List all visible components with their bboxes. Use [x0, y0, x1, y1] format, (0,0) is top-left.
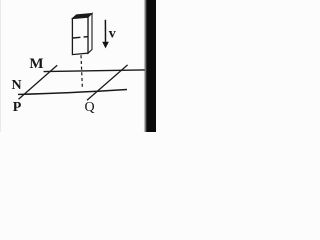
bar magnet pole divider (dashed) — [73, 36, 80, 39]
svg-text:N: N — [11, 78, 21, 93]
bar magnet front face — [72, 17, 88, 55]
dashed fall axis line — [81, 55, 82, 88]
svg-text:M: M — [29, 56, 43, 72]
loop plane left slant edge (M-P) — [19, 65, 58, 99]
bar magnet top face — [72, 13, 92, 18]
svg-text:Q: Q — [84, 100, 94, 115]
velocity arrow head — [102, 42, 109, 49]
loop plane top edge (through M) — [44, 70, 145, 72]
loop plane right slant edge (Q) — [87, 65, 128, 100]
svg-text:P: P — [13, 100, 22, 115]
loop plane bottom edge (through N,Q) — [18, 90, 127, 95]
faint scan edge left — [0, 0, 1, 132]
velocity arrow v shaft — [104, 20, 106, 43]
svg-text:v: v — [109, 27, 116, 42]
bar magnet side face — [88, 13, 92, 53]
scan dark band right edge — [144, 0, 147, 132]
